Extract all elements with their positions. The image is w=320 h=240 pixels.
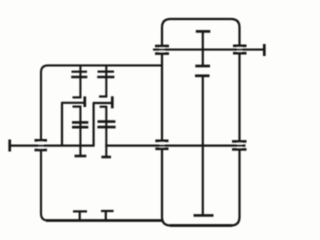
wall gap west top — [160, 45, 165, 54]
middle connector shaft — [105, 145, 245, 147]
shaft 2 bottom cap — [101, 156, 111, 159]
gear G2b bar upper — [98, 120, 116, 123]
clutch upper plate — [195, 65, 210, 68]
clutch1 fork post — [61, 103, 63, 146]
top output shaft — [153, 49, 265, 51]
top shaft end cap — [263, 44, 266, 56]
clutch1 sleeve bar — [83, 96, 86, 107]
gear G1a bar lower — [71, 76, 87, 79]
wall gap (input shaft crossing) — [39, 139, 44, 151]
gear G2b bar lower — [97, 126, 115, 129]
bearing cap left wall lower — [35, 149, 48, 152]
bearing cap left wall upper — [35, 139, 48, 142]
wall gap east bottom — [237, 142, 242, 150]
bearing cap west wall top-shaft lower — [155, 52, 169, 55]
clutch2 lower cap — [100, 106, 108, 108]
clutch lower plate — [195, 74, 210, 77]
floor bearing T2 cap — [101, 210, 114, 212]
gear G1a bar upper — [72, 71, 88, 73]
left box bottom edge (heavy) — [46, 219, 162, 222]
shaft 1 bottom cap — [75, 155, 87, 158]
gear G2a bar upper — [98, 70, 115, 72]
clutch2 fork arm — [93, 102, 113, 104]
housing right box — [162, 19, 240, 226]
clutch2 upper cap — [99, 95, 107, 97]
bearing cap east wall mid-shaft lower — [232, 148, 247, 151]
shaft 2 upper segment — [105, 65, 107, 97]
bearing cap east wall mid-shaft upper — [232, 140, 247, 143]
bearing cap west wall mid-shaft lower — [155, 148, 168, 151]
shaft 1 upper segment — [79, 65, 81, 98]
bearing cap west wall top-shaft upper — [155, 45, 169, 48]
bearing cap east wall top-shaft lower — [233, 52, 247, 55]
clutch2 fork post — [92, 103, 94, 146]
clutch1 lower cap — [73, 105, 82, 107]
shaft 2 lower segment — [105, 107, 107, 157]
gear G1b bar lower — [72, 126, 88, 129]
housing left box — [41, 65, 162, 220]
floor bearing T1 tick — [79, 211, 81, 219]
gear G1b bar upper — [72, 121, 88, 124]
central shaft bottom cap — [194, 214, 214, 217]
wall gap west bottom — [160, 141, 165, 149]
clutch1 fork arm — [61, 102, 85, 104]
input shaft end cap — [8, 140, 11, 152]
shaft 1 lower segment — [79, 107, 81, 156]
gear G2a bar lower — [97, 76, 114, 79]
right box bottom edge (heavy) — [170, 224, 232, 227]
clutch1 upper cap — [73, 96, 82, 98]
bearing cap east wall top-shaft upper — [233, 44, 247, 47]
central shaft lower segment — [202, 76, 204, 216]
input shaft — [9, 145, 95, 147]
floor bearing T1 cap — [73, 210, 87, 212]
central shaft top cap — [196, 30, 211, 33]
central shaft upper segment — [202, 31, 204, 66]
floor bearing T2 tick — [105, 211, 107, 220]
bearing cap west wall mid-shaft upper — [155, 140, 168, 143]
wall gap east top — [237, 45, 242, 54]
clutch2 sleeve bar — [111, 96, 114, 108]
